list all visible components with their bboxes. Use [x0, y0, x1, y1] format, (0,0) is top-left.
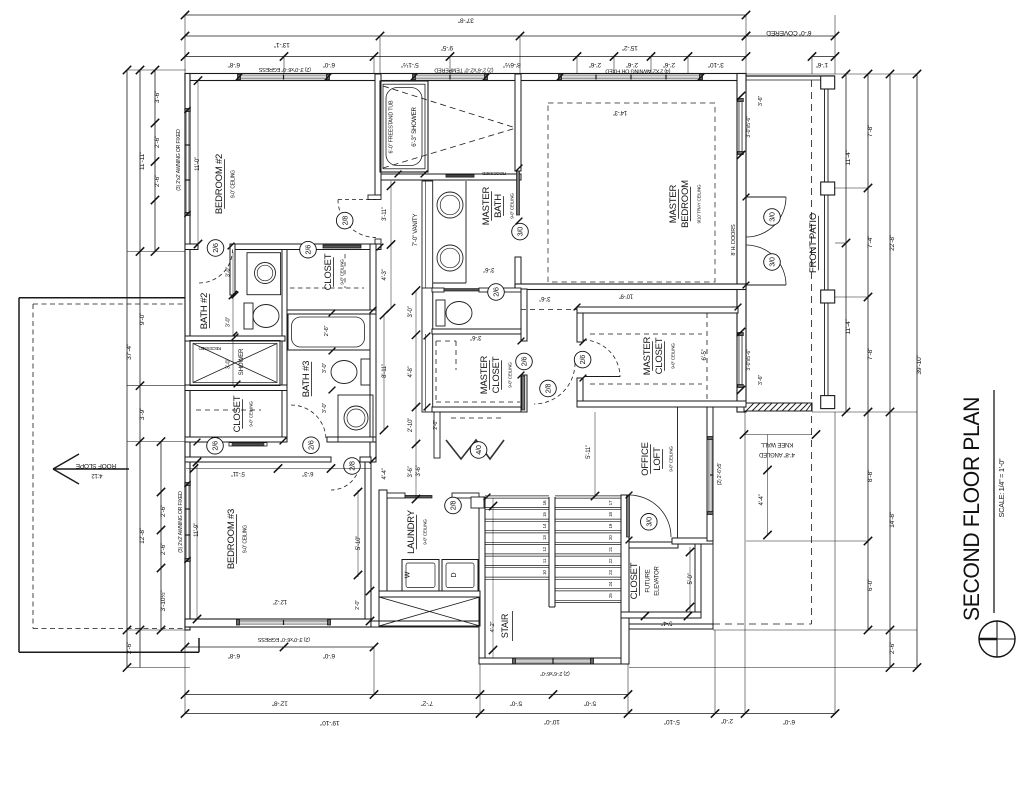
svg-text:8’-11”: 8’-11” — [382, 364, 388, 378]
svg-text:3’-6”: 3’-6” — [470, 334, 481, 340]
bath2 shower — [190, 341, 280, 386]
door bath3 2/6 — [291, 405, 326, 454]
svg-text:2’-6”: 2’-6” — [160, 505, 167, 517]
egress windows bedroom3 — [237, 620, 331, 626]
svg-text:2’-6”: 2’-6” — [160, 543, 167, 555]
svg-text:9-0” CEILING: 9-0” CEILING — [423, 519, 428, 545]
label bedroom3 dim — [193, 458, 201, 623]
bedroom3 bottom wall — [185, 619, 371, 627]
svg-text:FRONT PATIO: FRONT PATIO — [808, 213, 819, 273]
svg-text:2’-0”: 2’-0” — [355, 600, 361, 610]
svg-text:3/0: 3/0 — [768, 257, 777, 267]
svg-text:6’-0”: 6’-0” — [867, 579, 874, 591]
hers closet alcove dashed — [451, 417, 503, 419]
svg-text:3’-11”: 3’-11” — [382, 207, 388, 221]
master shower glass dashed — [383, 86, 516, 168]
svg-text:13’-1”: 13’-1” — [274, 41, 290, 48]
svg-text:ELEVATOR: ELEVATOR — [655, 565, 661, 595]
awning windows master bedroom — [559, 74, 703, 80]
hers closet shelving dashed — [436, 341, 520, 402]
closet slider bottom 2/6 — [207, 438, 224, 455]
svg-text:6’-3” SHOWER: 6’-3” SHOWER — [411, 107, 418, 147]
svg-text:22’-8”: 22’-8” — [889, 235, 896, 251]
svg-text:(4) 2’X2’ AWNING OR FIXED: (4) 2’X2’ AWNING OR FIXED — [605, 68, 670, 74]
stair bay bottom wall — [479, 658, 629, 664]
svg-text:9-0” CEILING: 9-0” CEILING — [510, 193, 515, 219]
svg-text:4’-3”: 4’-3” — [382, 269, 388, 280]
wc top wall — [432, 288, 521, 292]
bath2 hall wall — [230, 244, 235, 295]
svg-text:2’-0”: 2’-0” — [721, 717, 733, 724]
svg-text:4/0: 4/0 — [474, 445, 483, 455]
svg-text:(3) 2’x2’ AWNING OR FIXED: (3) 2’x2’ AWNING OR FIXED — [178, 491, 184, 553]
exterior left wall — [185, 74, 190, 631]
svg-text:BEDROOM #2: BEDROOM #2 — [214, 154, 225, 214]
door bath2 2/6 — [199, 240, 233, 283]
svg-text:6’-0” COVERED: 6’-0” COVERED — [766, 29, 811, 36]
svg-text:RECESSED: RECESSED — [199, 346, 222, 351]
svg-text:2’-6”: 2’-6” — [663, 61, 675, 68]
svg-text:5’-11”: 5’-11” — [586, 445, 592, 459]
svg-text:8’ H. DOORS: 8’ H. DOORS — [731, 224, 737, 256]
svg-text:5’-0”: 5’-0” — [688, 573, 694, 584]
bath3 tub — [288, 314, 370, 350]
angled knee wall hatched — [744, 403, 812, 411]
bedroom3 closet rod dashed — [196, 409, 261, 411]
svg-text:22: 22 — [608, 558, 613, 563]
svg-text:2/8: 2/8 — [348, 461, 357, 471]
svg-text:5’-0”: 5’-0” — [510, 700, 522, 707]
right master closet shelving dashed — [590, 313, 707, 401]
svg-text:37’-4”: 37’-4” — [126, 344, 133, 360]
svg-text:CLOSET: CLOSET — [491, 356, 502, 393]
wc toilet — [436, 300, 472, 326]
label master closet left — [479, 355, 513, 394]
bedroom2 bottom wall — [185, 244, 381, 250]
svg-text:4:12: 4:12 — [91, 472, 103, 478]
svg-text:7’-8”: 7’-8” — [867, 348, 874, 360]
svg-text:9/10’ TRAY CEILING: 9/10’ TRAY CEILING — [697, 184, 702, 223]
svg-text:2’-6”: 2’-6” — [589, 61, 601, 68]
hers closet right wall — [521, 289, 527, 412]
svg-text:15’-2”: 15’-2” — [622, 44, 638, 51]
svg-text:5’-1½”: 5’-1½” — [401, 61, 419, 69]
label bedroom2 ceiling dim — [194, 76, 202, 248]
svg-text:3’-0”: 3’-0” — [226, 267, 232, 278]
label master bedroom — [668, 180, 702, 228]
svg-text:5’-10”: 5’-10” — [664, 718, 680, 725]
master bedroom window upper right — [738, 99, 744, 155]
svg-text:2’-6”: 2’-6” — [154, 175, 161, 187]
svg-text:2/6: 2/6 — [211, 243, 220, 253]
master bath pocket door rail — [517, 171, 520, 215]
svg-text:13: 13 — [542, 535, 547, 540]
closet bottom wall — [185, 437, 287, 442]
svg-text:25: 25 — [608, 593, 613, 598]
svg-text:9-0” CEILING: 9-0” CEILING — [243, 525, 249, 553]
bath3 bottom wall piece — [327, 437, 376, 442]
label closet b3 — [232, 395, 254, 432]
laundry bottom wall — [379, 591, 480, 597]
svg-text:SHOWER: SHOWER — [238, 348, 245, 375]
svg-text:RECESSED: RECESSED — [481, 171, 506, 176]
closet top dashed shelf — [290, 254, 364, 288]
bifold doors 4/0 — [446, 440, 504, 459]
dimension framework — [123, 11, 923, 726]
svg-text:3’-0”: 3’-0” — [226, 317, 232, 328]
master vanity with two sinks — [433, 181, 466, 283]
svg-text:(2) 2’-6”x5’: (2) 2’-6”x5’ — [717, 463, 723, 485]
lower right corner line — [712, 541, 714, 629]
egress windows bedroom2 — [238, 74, 330, 80]
svg-text:3’-0”x5’-6”: 3’-0”x5’-6” — [746, 116, 752, 138]
svg-text:12’-8”: 12’-8” — [272, 700, 288, 707]
laundry door rail — [405, 495, 432, 498]
label laundry — [406, 509, 428, 554]
bath3 tub wall — [287, 310, 376, 314]
svg-text:6’-8”: 6’-8” — [228, 652, 240, 659]
hall door 2/8 — [534, 363, 575, 404]
elevator closet right wall — [695, 541, 701, 618]
svg-text:5’-0”: 5’-0” — [584, 700, 596, 707]
laundry left wall — [379, 490, 387, 597]
svg-text:2/6: 2/6 — [304, 245, 313, 255]
svg-text:17: 17 — [608, 500, 613, 505]
svg-text:4’-8”: 4’-8” — [408, 366, 414, 377]
svg-text:(2) 2’-6”x2’-0” TEMPERED: (2) 2’-6”x2’-0” TEMPERED — [434, 67, 493, 73]
svg-text:7’-0” VANITY: 7’-0” VANITY — [413, 214, 419, 247]
svg-text:7’-2”: 7’-2” — [421, 700, 433, 707]
svg-text:2/6: 2/6 — [492, 287, 501, 297]
svg-text:6’-0”: 6’-0” — [323, 652, 335, 659]
svg-text:7’-4”: 7’-4” — [867, 236, 874, 248]
stairs — [471, 496, 621, 607]
right master closet bottom wall — [577, 401, 746, 407]
svg-text:2/6: 2/6 — [211, 441, 220, 451]
patio double doors — [746, 197, 786, 285]
svg-text:2/6: 2/6 — [307, 440, 316, 450]
tempered windows master bath — [413, 74, 488, 80]
svg-text:3’-6”: 3’-6” — [483, 266, 494, 272]
junction tick marks — [194, 165, 750, 544]
bedroom3 right wall — [365, 462, 371, 619]
closet slider label 2/6 — [300, 241, 317, 258]
svg-text:BATH #2: BATH #2 — [199, 293, 210, 329]
wc pocket door 2/6 — [488, 284, 505, 301]
svg-text:12’-8”: 12’-8” — [139, 528, 146, 544]
svg-text:6’-0”: 6’-0” — [783, 718, 795, 725]
title second floor plan — [959, 390, 1015, 657]
svg-text:3’-6”: 3’-6” — [758, 96, 764, 107]
svg-text:24: 24 — [608, 581, 613, 586]
svg-text:KNEE WALL: KNEE WALL — [760, 441, 793, 447]
svg-text:4’-4”: 4’-4” — [759, 494, 765, 505]
elevator closet top wall — [629, 542, 678, 548]
svg-text:3’-10”: 3’-10” — [708, 61, 724, 68]
svg-text:3’-0”x5’-6”: 3’-0”x5’-6” — [746, 349, 752, 371]
svg-text:11’-11”: 11’-11” — [139, 152, 146, 170]
svg-text:(2) 3’-0”x6’-0” EGRESS: (2) 3’-0”x6’-0” EGRESS — [257, 636, 310, 642]
svg-text:7’-8”: 7’-8” — [867, 125, 874, 137]
label master bath — [481, 186, 515, 225]
svg-text:3’-6”: 3’-6” — [408, 466, 414, 477]
right master closet top wall — [577, 307, 738, 313]
svg-text:15: 15 — [542, 512, 547, 517]
svg-text:(3) 2’x2’ AWNING OR FIXED: (3) 2’x2’ AWNING OR FIXED — [176, 129, 182, 191]
open below x-box — [379, 597, 480, 626]
svg-text:4’-8” ANGLED: 4’-8” ANGLED — [758, 451, 794, 457]
svg-text:D: D — [451, 572, 458, 577]
svg-text:18: 18 — [608, 512, 613, 517]
svg-text:3’-6”: 3’-6” — [758, 375, 764, 386]
bath cluster center wall — [282, 250, 287, 443]
interior dims and window labels — [176, 66, 820, 676]
svg-text:3’-6”: 3’-6” — [154, 91, 161, 103]
svg-text:12: 12 — [542, 546, 547, 551]
freestanding tub and shower block — [380, 81, 428, 172]
svg-text:9-0” CEILING: 9-0” CEILING — [508, 362, 513, 388]
svg-text:CLOSET: CLOSET — [323, 253, 334, 290]
label bedroom2 — [214, 154, 237, 214]
master closet alcove stub — [434, 412, 440, 458]
svg-text:4’-4”: 4’-4” — [382, 468, 388, 479]
svg-text:23: 23 — [608, 570, 613, 575]
svg-text:FUTURE: FUTURE — [646, 569, 652, 592]
right master closet left wall — [577, 313, 583, 407]
label office loft — [640, 442, 674, 476]
svg-text:6’-0” FREESTAND TUB: 6’-0” FREESTAND TUB — [389, 100, 395, 154]
stair label — [500, 611, 513, 641]
office loft open rail line — [677, 407, 679, 538]
svg-text:2’-0”: 2’-0” — [433, 420, 439, 430]
master bedroom left wall upper — [515, 74, 521, 171]
elevator closet bottom wall — [621, 612, 701, 618]
svg-text:3’-9”: 3’-9” — [139, 408, 146, 420]
svg-text:9-0” CEILING: 9-0” CEILING — [669, 446, 674, 472]
office loft windows — [707, 437, 713, 515]
door bedroom3 2/8 — [331, 458, 360, 490]
door laundry 2/8 — [445, 497, 462, 514]
master closet bottom wall — [432, 407, 527, 412]
svg-text:19’-10”: 19’-10” — [320, 719, 339, 726]
awning windows bedroom2 left — [185, 109, 191, 216]
master bath left wall — [422, 181, 433, 412]
svg-text:LAUNDRY: LAUNDRY — [406, 509, 417, 554]
hers closet pocket 2/6 — [516, 353, 533, 370]
door corridor 2/8 — [336, 200, 376, 238]
svg-text:14’-8”: 14’-8” — [889, 512, 896, 528]
svg-text:(2) 2’-6”x6’-0”: (2) 2’-6”x6’-0” — [540, 670, 570, 676]
svg-text:9-0” CEILING: 9-0” CEILING — [671, 343, 676, 369]
bath3 fixture dims — [322, 363, 328, 414]
svg-text:6’-0”: 6’-0” — [323, 61, 335, 68]
stair bay right wall — [621, 495, 629, 664]
right closet door 2/6 — [574, 340, 620, 377]
svg-text:12’-2”: 12’-2” — [273, 598, 287, 604]
wc bottom wall — [432, 329, 521, 334]
svg-text:CLOSET: CLOSET — [232, 395, 243, 432]
svg-text:3/0: 3/0 — [768, 212, 777, 222]
hall ceiling break dashed — [521, 309, 577, 311]
svg-text:3’-0”: 3’-0” — [408, 306, 414, 317]
svg-text:MASTER: MASTER — [668, 184, 679, 223]
roof dashed bottom right — [713, 623, 812, 625]
svg-text:6’-8”: 6’-8” — [228, 61, 240, 68]
svg-text:39’-10”: 39’-10” — [916, 355, 923, 374]
bedroom3 top wall — [185, 457, 371, 462]
master bedroom left wall lower — [515, 257, 521, 289]
svg-text:OFFICE: OFFICE — [640, 442, 651, 476]
roof slope arrow — [53, 454, 129, 484]
svg-text:STAIR: STAIR — [500, 614, 510, 638]
svg-text:(2) 3’-0”x6’-0” EGRESS: (2) 3’-0”x6’-0” EGRESS — [258, 66, 311, 72]
svg-text:3’-6”: 3’-6” — [539, 295, 550, 301]
svg-text:9-0” CEILING: 9-0” CEILING — [340, 259, 345, 285]
svg-text:1’-6”: 1’-6” — [816, 61, 828, 68]
svg-text:16: 16 — [542, 500, 547, 505]
svg-text:10’-9”: 10’-9” — [619, 293, 633, 299]
master bath pocket 3/0 — [512, 223, 529, 240]
svg-text:5’-10”: 5’-10” — [356, 536, 362, 550]
svg-text:14: 14 — [542, 523, 547, 528]
svg-text:8’-6½”: 8’-6½” — [503, 61, 521, 69]
svg-text:21: 21 — [608, 546, 613, 551]
laundry top wall — [387, 493, 479, 498]
label bath3 — [301, 361, 312, 397]
closet shelf top slider — [323, 245, 361, 248]
svg-text:2/8: 2/8 — [340, 216, 349, 226]
bath3 sink — [338, 395, 373, 442]
bath3 toilet — [331, 359, 370, 385]
svg-text:3’-0”: 3’-0” — [322, 403, 328, 414]
tray ceiling dashed — [548, 103, 715, 282]
svg-text:6’-3”: 6’-3” — [302, 470, 313, 476]
svg-text:9’-0”: 9’-0” — [139, 313, 146, 325]
recessed cabinet master bath — [446, 171, 506, 177]
awning windows bedroom3 left — [185, 483, 191, 562]
svg-text:2’-6”: 2’-6” — [154, 136, 161, 148]
label closet elevator — [629, 562, 661, 599]
svg-text:CLOSET: CLOSET — [654, 337, 665, 374]
svg-text:3’-6”: 3’-6” — [416, 465, 422, 476]
svg-text:5’-11”: 5’-11” — [231, 470, 245, 476]
svg-text:14’-3”: 14’-3” — [613, 109, 627, 115]
label bath2 — [199, 293, 210, 329]
svg-text:2’-6”: 2’-6” — [626, 61, 638, 68]
svg-text:3/0: 3/0 — [644, 517, 653, 527]
svg-text:5’-4”: 5’-4” — [661, 620, 672, 626]
svg-text:BEDROOM: BEDROOM — [680, 180, 691, 228]
hers closet pocket rail — [522, 376, 525, 410]
svg-text:CLOSET: CLOSET — [629, 562, 640, 599]
office door 3/0 — [627, 495, 672, 537]
bath2 toilet — [244, 303, 279, 329]
svg-text:BEDROOM #3: BEDROOM #3 — [226, 509, 237, 569]
svg-text:3’-0”: 3’-0” — [322, 363, 328, 374]
svg-text:37’-8”: 37’-8” — [458, 17, 474, 24]
stair bay left wall — [479, 497, 485, 664]
svg-text:ROOF SLOPE: ROOF SLOPE — [75, 462, 116, 469]
svg-text:11: 11 — [542, 558, 547, 563]
bedroom2 right wall — [368, 74, 381, 245]
svg-text:2/8: 2/8 — [449, 501, 458, 511]
label master closet right — [642, 336, 676, 375]
stair dim 4-2 — [489, 498, 497, 658]
exterior top wall — [185, 74, 746, 81]
washer and dryer — [402, 560, 478, 592]
roof outline left — [19, 298, 199, 653]
svg-text:MASTER: MASTER — [642, 336, 653, 375]
svg-text:MASTER: MASTER — [479, 355, 490, 394]
svg-text:2’-6”: 2’-6” — [889, 642, 896, 654]
front patio wall and columns — [746, 76, 835, 409]
office loft right wall — [707, 407, 713, 541]
bath cluster right wall — [370, 244, 376, 462]
building lower edge right — [629, 624, 713, 629]
svg-text:10: 10 — [542, 570, 547, 575]
svg-text:10’-0”: 10’-0” — [544, 718, 560, 725]
lower edge wall left of stair bay — [371, 621, 479, 627]
svg-text:9-0” CEILING: 9-0” CEILING — [231, 170, 237, 198]
closet top wall below shower — [185, 385, 287, 391]
office loft bottom wall — [672, 538, 713, 544]
svg-text:9’-5”: 9’-5” — [441, 44, 453, 51]
master closet window right — [738, 333, 744, 388]
svg-text:11’-4”: 11’-4” — [845, 150, 852, 165]
svg-text:9-0” CEILING: 9-0” CEILING — [249, 401, 254, 427]
svg-text:2/6: 2/6 — [578, 355, 587, 365]
shower top wall — [185, 336, 285, 341]
svg-text:11’-4”: 11’-4” — [845, 319, 852, 334]
label front patio — [808, 213, 819, 273]
svg-text:20: 20 — [608, 535, 613, 540]
svg-text:3’-10½”: 3’-10½” — [159, 591, 167, 612]
roof overhang dashed line — [811, 80, 813, 624]
label bedroom3 — [226, 509, 249, 569]
svg-text:SECOND FLOOR PLAN: SECOND FLOOR PLAN — [959, 397, 984, 621]
svg-text:6’-5”: 6’-5” — [702, 349, 708, 360]
svg-text:MASTER: MASTER — [481, 186, 492, 225]
label closet top — [323, 253, 345, 290]
svg-text:2/8: 2/8 — [544, 384, 553, 394]
svg-text:BATH #3: BATH #3 — [301, 361, 312, 397]
closet slider doors — [229, 443, 267, 446]
master bedroom bottom wall — [515, 284, 746, 290]
stair bay window — [513, 658, 594, 664]
svg-text:19: 19 — [608, 523, 613, 528]
svg-text:2’-6”: 2’-6” — [324, 325, 330, 336]
svg-text:8’-8”: 8’-8” — [867, 470, 874, 482]
bath2 fixture dims — [226, 252, 238, 385]
svg-text:3/0: 3/0 — [516, 227, 525, 237]
svg-text:2/6: 2/6 — [520, 357, 529, 367]
svg-text:W: W — [405, 571, 412, 578]
wet room bottom wall — [381, 174, 521, 180]
svg-text:BATH: BATH — [493, 194, 504, 218]
bath2 vanity — [247, 253, 281, 295]
exterior right wall — [737, 74, 746, 413]
svg-text:SCALE: 1/4” = 1’-0”: SCALE: 1/4” = 1’-0” — [997, 458, 1006, 518]
svg-text:2’-10”: 2’-10” — [408, 418, 414, 432]
svg-text:LOFT: LOFT — [652, 447, 663, 471]
